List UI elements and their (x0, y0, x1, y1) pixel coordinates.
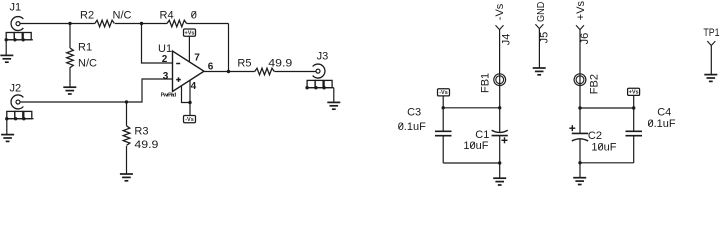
svg-text:-Vs: -Vs (494, 3, 506, 20)
svg-text:3: 3 (163, 71, 169, 82)
plus input mark (176, 79, 181, 81)
connector pin J6 (575, 0, 591, 74)
wire junction to R2 (70, 23, 95, 25)
svg-text:C3: C3 (407, 106, 421, 118)
junction C2 bottom / ground (578, 161, 581, 164)
svg-text:FB1: FB1 (479, 73, 491, 93)
junction R3 tap (125, 100, 128, 103)
svg-text:N/C: N/C (113, 9, 132, 21)
wire R3 junction to pin3 riser (127, 79, 173, 102)
capacitor C3 (398, 106, 452, 163)
svg-text:R5: R5 (237, 57, 251, 69)
ferrite bead FB2 (574, 74, 600, 94)
wire op-amp output to R5 (204, 71, 255, 73)
junction C3 / -Vs flag (442, 106, 445, 109)
connector J1 (0, 1, 33, 62)
wire junction A down to pin2 (142, 24, 173, 64)
wire junction A to R4 (142, 23, 168, 25)
resistor R3 (123, 126, 130, 146)
svg-text:0.1uF: 0.1uF (398, 121, 426, 133)
ferrite bead FB1 (479, 73, 505, 93)
svg-text:R1: R1 (78, 42, 92, 54)
ground under C1 (499, 163, 501, 178)
junction A (R2/R4/pin2) (140, 22, 143, 25)
test point TP1 (703, 27, 719, 81)
capacitor C1 (polarized) (463, 108, 507, 163)
svg-text:2: 2 (162, 54, 168, 65)
resistor R1 (67, 48, 74, 68)
-Vs group bottom rail (443, 162, 500, 164)
svg-text:+Vs: +Vs (185, 30, 195, 36)
svg-text:PwrPad: PwrPad (161, 93, 177, 99)
resistor R5 (255, 68, 275, 75)
svg-text:0: 0 (191, 9, 197, 21)
connector J3 (305, 51, 340, 110)
plus mark C2 (569, 127, 575, 129)
ground under C2 (579, 163, 581, 178)
svg-text:C2: C2 (588, 130, 602, 142)
svg-text:J4: J4 (500, 34, 512, 46)
+Vs flag at pin 7 (184, 29, 196, 37)
ground under R1 (63, 87, 76, 94)
capacitor C4 (626, 106, 676, 162)
-Vs flag above C3 (442, 96, 444, 108)
svg-text:-Vs: -Vs (185, 117, 194, 123)
junction FB1 / C1 / rail (498, 106, 501, 109)
connector J2 (1, 83, 34, 142)
node -Vs rail link (443, 107, 500, 109)
ground under J5 (533, 68, 546, 75)
svg-text:+Vs: +Vs (629, 90, 639, 96)
svg-text:R3: R3 (134, 125, 148, 137)
svg-text:N/C: N/C (78, 57, 97, 69)
connector pin J4 (494, 3, 513, 74)
junction C1 bottom / ground (498, 161, 501, 164)
svg-text:R2: R2 (80, 9, 94, 21)
wire J2 to R3 junction (20, 101, 127, 103)
svg-text:6: 6 (208, 62, 214, 73)
minus input mark (176, 63, 180, 65)
svg-text:-Vs: -Vs (439, 90, 448, 96)
wire R1 branch down (69, 24, 71, 49)
svg-text:10uF: 10uF (463, 140, 488, 152)
resistor R2 (95, 20, 115, 27)
svg-text:10uF: 10uF (591, 141, 616, 153)
wire R3 to ground (126, 146, 128, 174)
svg-text:GND: GND (536, 2, 547, 22)
pin 4 wire (189, 81, 191, 116)
svg-text:0.1uF: 0.1uF (648, 118, 676, 130)
svg-text:7: 7 (194, 52, 200, 63)
svg-text:J6: J6 (579, 33, 591, 45)
ground under R3 (120, 174, 133, 181)
+Vs group bottom rail (580, 162, 634, 164)
svg-text:J1: J1 (10, 1, 22, 13)
wire R3 branch down (126, 102, 128, 126)
svg-text:J2: J2 (10, 83, 22, 95)
svg-text:+Vs: +Vs (575, 0, 587, 20)
op-amp U1 (158, 43, 214, 98)
-Vs flag at pin 4 (184, 116, 196, 124)
junction R1 tap (68, 22, 71, 25)
connector pin J5 (535, 2, 550, 68)
svg-text:TP1: TP1 (703, 27, 719, 39)
wire J1 to R1 junction (20, 23, 70, 25)
capacitor C2 (polarized) (569, 108, 616, 163)
+Vs flag above C4 (633, 96, 635, 109)
wire FB2 to +Vs rail junction (579, 86, 581, 108)
wire R5 to J3 (275, 71, 317, 73)
resistor R4 (167, 20, 187, 27)
node +Vs rail link (580, 107, 634, 109)
svg-text:49.9: 49.9 (268, 58, 292, 70)
junction FB2 / C2 / rail (578, 106, 581, 109)
PwrPad pin wire (182, 86, 191, 102)
wire feedback drop to output (228, 24, 230, 72)
wire R2 to junction A (115, 23, 142, 25)
pin 7 wire (188, 36, 190, 62)
svg-text:C4: C4 (657, 106, 671, 118)
junction pin4/pwrpad (188, 101, 191, 104)
junction feedback/output (227, 70, 230, 73)
wire J4 down to FB1 (499, 30, 501, 74)
svg-text:49.9: 49.9 (134, 139, 158, 151)
svg-text:FB2: FB2 (589, 74, 601, 94)
svg-text:4: 4 (191, 81, 197, 92)
wire R4 to feedback corner (187, 23, 229, 25)
svg-text:J5: J5 (539, 32, 551, 44)
wire FB1 to -Vs rail junction (499, 86, 501, 108)
svg-text:R4: R4 (160, 9, 174, 21)
svg-text:J3: J3 (317, 51, 329, 63)
wire R1 to ground (69, 67, 71, 87)
plus mark C1 (502, 139, 508, 141)
junction C4 / +Vs flag (632, 106, 635, 109)
